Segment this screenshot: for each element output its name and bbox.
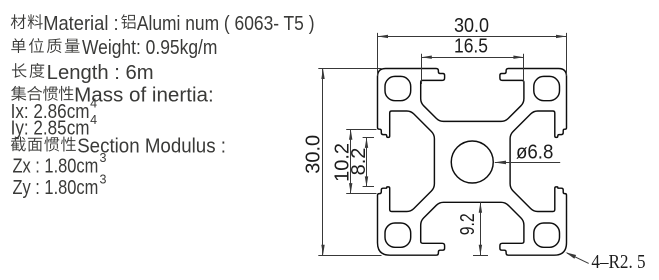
- svg-text:30.0: 30.0: [454, 15, 489, 37]
- svg-text:Weight: 0.95kg/m: Weight: 0.95kg/m: [82, 37, 217, 59]
- svg-text:8.2: 8.2: [348, 148, 370, 176]
- svg-text:3: 3: [100, 172, 107, 186]
- svg-text:30.0: 30.0: [302, 135, 324, 174]
- corner screw hole top-right: [534, 76, 560, 100]
- spec line 1: material: [11, 14, 26, 29]
- left specification text block: [11, 13, 315, 199]
- svg-text:Material :: Material :: [43, 13, 118, 35]
- spec line 3: length: [12, 63, 27, 78]
- spec line 4: mass of inertia heading: [11, 86, 26, 101]
- svg-text:4: 4: [90, 113, 97, 127]
- dimension 16.5 (top slot inner width): [421, 54, 423, 84]
- corner screw hole top-left: [385, 76, 411, 100]
- dimension 8.2 (left slot opening height): [363, 137, 374, 139]
- svg-text:4: 4: [90, 97, 97, 111]
- svg-text:9.2: 9.2: [457, 213, 479, 235]
- svg-text:Length : 6m: Length : 6m: [47, 62, 154, 84]
- spec line 2: unit weight: [11, 38, 25, 53]
- svg-text:Zx : 1.80cm: Zx : 1.80cm: [13, 156, 99, 178]
- svg-text:4–R2. 5: 4–R2. 5: [591, 251, 645, 273]
- svg-text:Zy : 1.80cm: Zy : 1.80cm: [13, 177, 99, 199]
- svg-text:ø6.8: ø6.8: [516, 141, 553, 163]
- svg-text:Alumi num ( 6063- T5 ): Alumi num ( 6063- T5 ): [137, 13, 315, 35]
- leader with arrow and label 4-R2.5 (corner radius note): [567, 253, 589, 263]
- corner screw hole bottom-left: [385, 223, 411, 247]
- center bore diameter 6.8: [451, 141, 493, 183]
- dimension 9.2 (bottom wall to outer face): [473, 255, 488, 257]
- spec line 7: section modulus heading: [11, 137, 26, 152]
- svg-text:3: 3: [100, 151, 107, 165]
- svg-text:16.5: 16.5: [454, 36, 488, 58]
- leader with arrow and label ø6.8 (center bore): [495, 162, 560, 164]
- dimension 30.0 (top overall width): extension lines, dimension line, arrows, label: [377, 33, 379, 76]
- corner screw hole bottom-right: [534, 223, 560, 247]
- dimension 10.2 (left slot outer step height): [346, 129, 376, 131]
- dimension 30.0 (left overall height): [318, 68, 381, 70]
- profile outline: 30x30 aluminium extrusion cross-section with four T-slots: [378, 69, 567, 256]
